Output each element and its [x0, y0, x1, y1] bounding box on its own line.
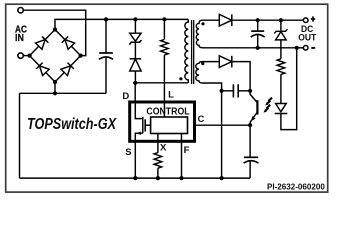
MOSFET Q internal	[135, 104, 143, 134]
wire output + rail	[232, 19, 304, 21]
diode D1 blocking (apex up)	[134, 42, 136, 59]
node return minus	[295, 46, 299, 50]
node C pin	[248, 123, 252, 127]
phototransistor U1 optocoupler	[256, 100, 258, 114]
svg-text:OUT: OUT	[298, 33, 316, 43]
wire C pin	[196, 124, 250, 126]
wire F pin	[181, 134, 183, 179]
phase dot bias	[201, 62, 204, 65]
phase dot primary	[179, 77, 182, 80]
transformer T1 primary winding	[185, 19, 188, 82]
node bias cap left	[220, 89, 224, 93]
node rail S	[133, 176, 137, 180]
bridge diode bottom-right	[61, 63, 74, 76]
wire drain node to primary	[135, 82, 188, 84]
node bridge right	[79, 54, 83, 58]
svg-text:S: S	[125, 147, 131, 158]
LED U1 optocoupler diode (apex down)	[276, 104, 287, 112]
CONTROL block	[151, 117, 188, 134]
svg-text:F: F	[184, 145, 190, 156]
diode D3 bias rectifier	[219, 56, 232, 68]
wire S pin	[134, 140, 136, 178]
node out rail C2	[256, 18, 260, 22]
node rail clamp	[133, 17, 137, 21]
node return bridge	[53, 91, 57, 95]
bridge diode top-right	[62, 36, 75, 49]
wire left return drop	[19, 93, 21, 178]
resistor R3 external current limit	[154, 153, 162, 169]
DC- terminal	[303, 46, 308, 51]
node out rail VR2	[279, 18, 283, 22]
opto emission arrow 1	[267, 98, 272, 104]
wire bias return	[221, 91, 223, 178]
node bridge bottom	[53, 80, 57, 84]
wire X pin	[157, 134, 159, 153]
zener VR1 clamp (apex down)	[134, 19, 136, 33]
transformer T1 secondary winding	[196, 20, 294, 48]
phase dot secondary	[201, 22, 204, 25]
bridge diode top-left	[36, 36, 49, 49]
node bridge left	[28, 54, 32, 58]
bridge diode bottom-left	[36, 63, 49, 76]
wire D pin	[134, 83, 136, 101]
border frame	[6, 4, 328, 192]
label minus	[311, 47, 315, 49]
capacitor C3 bias	[222, 90, 234, 92]
svg-text:D: D	[122, 91, 129, 102]
node rail C1	[104, 17, 108, 21]
svg-text:C: C	[198, 114, 205, 125]
svg-text:PI-2632-060200: PI-2632-060200	[267, 181, 325, 191]
svg-text:X: X	[160, 142, 167, 153]
transformer T1 bias winding	[196, 62, 222, 91]
svg-text:CONTROL: CONTROL	[146, 107, 189, 118]
DC+ terminal	[303, 18, 308, 23]
node rail bias	[220, 176, 224, 180]
node rail X	[156, 176, 160, 180]
bridge rectifier BR1 diamond	[30, 30, 81, 83]
node bridge top	[53, 27, 57, 31]
AC input terminal top	[18, 8, 23, 13]
wire L pin	[163, 55, 165, 101]
TOPSwitch-GX U2 package box	[130, 102, 195, 141]
AC input terminal bottom	[18, 53, 23, 58]
transformer core	[191, 20, 193, 84]
wire bias feed to collector node	[232, 62, 250, 91]
capacitor C2 output	[257, 20, 259, 31]
svg-text:IN: IN	[15, 33, 24, 44]
wire L pin into control	[163, 104, 165, 118]
node rail R1	[162, 17, 166, 21]
wire return to minus terminal	[295, 47, 304, 49]
wire bridge bottom drop	[54, 82, 56, 93]
wire bottom source rail	[20, 177, 251, 179]
wire AC bottom to bridge left vertex	[23, 55, 29, 57]
wire primary return	[20, 92, 107, 94]
svg-text:TOPSwitch-GX: TOPSwitch-GX	[27, 116, 117, 133]
zener VR2 feedback sense (apex up)	[280, 20, 282, 31]
wire AC top to bridge right vertex	[23, 10, 85, 55]
diode D2 output rectifier	[219, 14, 232, 26]
opto emission arrow 2	[266, 105, 271, 111]
capacitor C1 input bulk	[105, 19, 107, 53]
node rail F	[179, 176, 183, 180]
node return C2	[256, 46, 260, 50]
capacitor C4 control bypass	[249, 125, 251, 157]
resistor R1 line sense	[163, 19, 165, 39]
svg-text:L: L	[168, 90, 174, 101]
label DC OUT plus	[311, 16, 315, 21]
resistor R2 feedback	[280, 40, 282, 59]
node collector	[248, 89, 252, 93]
node drain	[133, 81, 137, 85]
wire DC+ rail	[55, 19, 188, 29]
